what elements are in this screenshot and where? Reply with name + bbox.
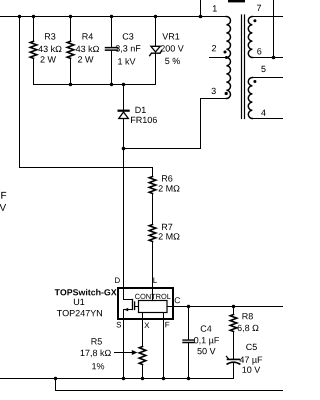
cropped left capacitor label V: [0, 204, 6, 211]
node source rail/return drop: [54, 377, 57, 380]
wire pin3 riser: [200, 99, 202, 149]
wire X pin down: [142, 313, 144, 347]
pin label X: [144, 323, 149, 329]
transistor gate bar: [134, 302, 136, 310]
wire S pin down: [123, 319, 125, 379]
resistor R8: [230, 307, 258, 360]
pin label 7: [257, 5, 261, 11]
wire L pin into control box: [152, 288, 154, 301]
wire pin7 lead: [252, 16, 283, 18]
resistor R4: [67, 17, 99, 85]
node rail/R3: [32, 15, 35, 18]
wire pin4 lead: [252, 118, 283, 120]
pin label 6: [257, 48, 261, 54]
transistor source arrow: [124, 308, 128, 312]
wire source rail: [0, 362, 234, 378]
node source rail/F pin: [162, 377, 165, 380]
zener VR1: [150, 17, 184, 85]
pin label S: [117, 322, 122, 328]
wire left branch horizontal to R6 chain: [20, 167, 153, 169]
transistor channel bar: [132, 300, 134, 310]
pin label C: [175, 297, 180, 303]
node pin6/riser: [272, 56, 276, 60]
wire F pin down: [163, 313, 165, 379]
transformer core: [242, 15, 245, 119]
primary polarity dot: [224, 51, 227, 54]
wire drain node to pin3 riser: [124, 148, 201, 150]
pin label 2: [212, 45, 216, 51]
node drain junction: [122, 147, 126, 151]
wire left branch vertical: [19, 17, 21, 168]
node rail/VR1: [154, 15, 157, 18]
pin label 5: [261, 66, 265, 72]
wire C pin line: [167, 306, 283, 308]
node rail/left branch: [18, 15, 21, 18]
node rail/R4: [69, 15, 72, 18]
node C line/R8: [232, 305, 235, 308]
transformer secondary winding pins 5-4: [248, 78, 252, 119]
transistor Q internal MOSFET drain lead: [124, 288, 133, 300]
secondary 2 polarity dot: [253, 80, 256, 83]
transistor gate lead: [135, 306, 139, 308]
wire pin3 lead: [201, 98, 227, 100]
resistor R3: [30, 17, 61, 85]
wire drain vertical to U1 D pin: [123, 149, 125, 289]
U1 CONTROL box: [139, 301, 168, 313]
cropped left capacitor label F: [1, 192, 6, 199]
transformer T1 cropped label: [228, 0, 245, 2]
node source rail/R5: [141, 377, 144, 380]
transformer secondary winding pins 7-6: [248, 17, 252, 58]
pin label 3: [212, 88, 216, 94]
node rail/pin1 riser: [199, 15, 203, 19]
wire pin2 lead: [210, 57, 227, 59]
node pin2 tap: [225, 56, 228, 59]
node clamp/D1: [122, 83, 125, 86]
pin label D: [115, 278, 120, 284]
transformer primary winding pins 1-2-3: [226, 17, 230, 99]
resistor R7: [149, 224, 179, 288]
wire return rail drop: [55, 379, 57, 391]
capacitor C3: [106, 17, 141, 85]
node source rail/S pin: [122, 377, 125, 380]
wire pin5 lead: [252, 77, 283, 79]
capacitor C5 electrolytic: [226, 344, 262, 379]
node rail/C3: [110, 15, 113, 18]
op-amp U1 TOPSwitch body: [118, 288, 173, 319]
secondary 1 polarity dot: [253, 19, 256, 22]
resistor R5: [81, 338, 146, 378]
pin label 1: [213, 5, 217, 11]
node clamp/C3: [110, 83, 113, 86]
wire pin6 lead: [252, 57, 283, 59]
R5 leader arrow: [115, 352, 134, 354]
wire clamp bottom rail: [34, 84, 156, 86]
capacitor C4: [183, 307, 219, 379]
pin label L: [153, 278, 157, 284]
node pin3 end: [225, 92, 228, 95]
wire output riser: [273, 0, 275, 58]
pin label 4: [261, 110, 266, 116]
wire HV+ top rail: [0, 16, 227, 18]
resistor R6: [149, 168, 179, 225]
pin label F: [165, 322, 169, 328]
node C line/C4: [187, 305, 190, 308]
wire return rail: [56, 390, 284, 392]
transistor source lead: [124, 310, 133, 320]
wire pin1 riser to top edge: [200, 0, 202, 17]
diode D1 FR106: [119, 85, 157, 149]
node clamp/R4: [69, 83, 72, 86]
node source rail/C4: [187, 377, 190, 380]
